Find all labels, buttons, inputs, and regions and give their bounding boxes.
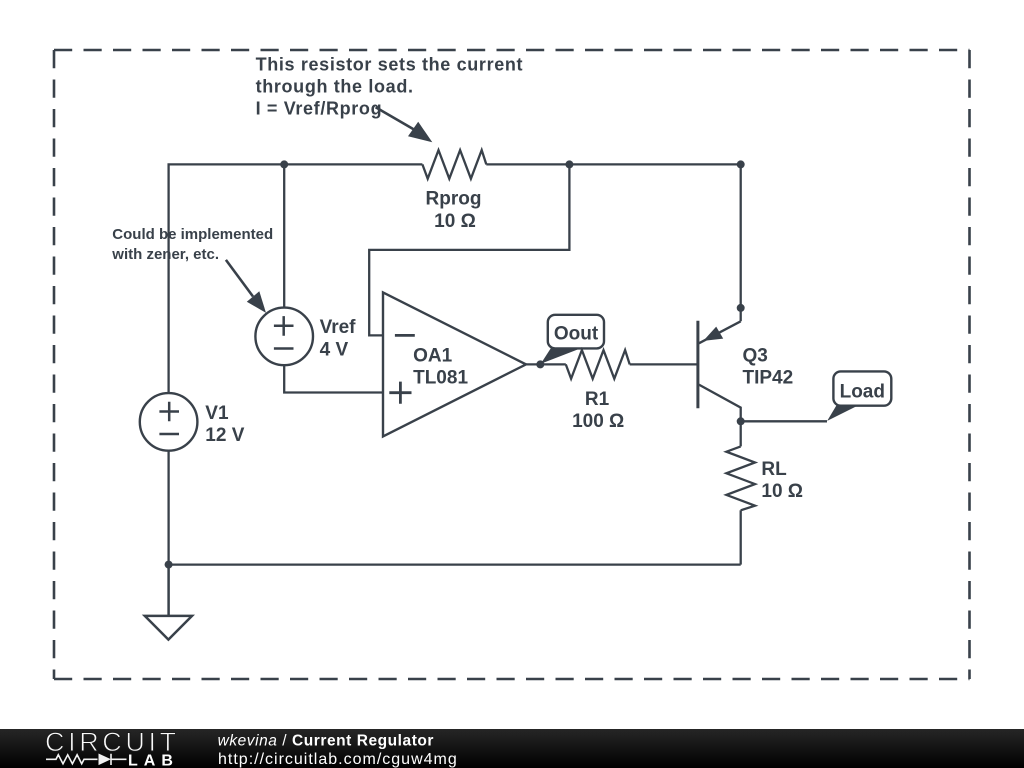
- svg-text:10 Ω: 10 Ω: [434, 211, 476, 232]
- op-amp inverting input pin marker: [395, 334, 415, 337]
- wire: Vref bottom to op-amp non-inverting input: [284, 365, 383, 392]
- svg-text:100 Ω: 100 Ω: [572, 411, 624, 432]
- wire: op-amp output to R1: [526, 363, 566, 365]
- svg-text:This resistor sets the current: This resistor sets the current: [256, 54, 524, 74]
- ground: [145, 565, 192, 640]
- svg-text:R1: R1: [585, 389, 610, 410]
- svg-text:Rprog: Rprog: [426, 189, 482, 210]
- wire: top rail from Rprog to transistor column: [486, 163, 740, 165]
- wire: collector node down to RL: [740, 421, 742, 446]
- annotation arrow to Vref: [226, 260, 266, 313]
- svg-text:TL081: TL081: [413, 368, 468, 389]
- svg-text:Vref: Vref: [320, 317, 357, 338]
- node junction: bottom rail / ground: [165, 561, 173, 569]
- wire: collector node to Load flag: [741, 420, 827, 422]
- resistor RL: [726, 446, 755, 510]
- node junction: rail / Q3 emitter column: [737, 160, 745, 168]
- CircuitLab logo resistor-diode glyph: [46, 754, 127, 765]
- wire: R1 to Q3 base: [630, 363, 698, 365]
- wire: Q3 emitter column down from rail: [740, 164, 742, 321]
- svg-text:LAB: LAB: [128, 753, 179, 768]
- svg-text:with zener, etc.: with zener, etc.: [111, 246, 219, 263]
- wire: left branch, top rail corner down to V1 top: [169, 164, 423, 393]
- net flag Oout: [541, 315, 604, 364]
- svg-text:Q3: Q3: [743, 345, 768, 366]
- wire: Vref branch down from rail: [283, 164, 285, 307]
- wire: feedback from op-amp inverting input up to top rail: [369, 164, 569, 335]
- svg-text:through the load.: through the load.: [256, 76, 414, 96]
- svg-text:wkevina / Current Regulator: wkevina / Current Regulator: [218, 733, 434, 750]
- svg-text:TIP42: TIP42: [743, 368, 794, 389]
- voltage source V1: [140, 393, 198, 451]
- svg-text:Load: Load: [840, 382, 885, 403]
- annotation arrow to Rprog: [376, 107, 433, 142]
- svg-text:OA1: OA1: [413, 346, 453, 367]
- voltage source Vref: [255, 308, 313, 366]
- node junction: Q3 collector / RL / Load: [737, 417, 745, 425]
- svg-text:RL: RL: [761, 459, 787, 480]
- op-amp non-inverting input pin marker: [389, 382, 411, 404]
- node: Q3 emitter terminal dot: [737, 304, 745, 312]
- transistor Q3 (PNP): [698, 321, 741, 422]
- wire: V1 bottom to ground rail: [167, 451, 169, 565]
- annotation: top note text: [256, 54, 524, 118]
- svg-text:V1: V1: [205, 403, 229, 424]
- svg-text:4 V: 4 V: [320, 339, 349, 360]
- svg-text:12 V: 12 V: [205, 425, 244, 446]
- wire: bottom rail: [169, 563, 741, 565]
- annotation: left note text: [111, 226, 273, 263]
- resistor Rprog: [422, 150, 486, 179]
- wire: RL bottom to bottom rail: [740, 510, 742, 564]
- resistor R1: [566, 350, 630, 379]
- node Oout: op-amp output junction: [536, 360, 544, 368]
- svg-text:http://circuitlab.com/cguw4mg: http://circuitlab.com/cguw4mg: [218, 751, 458, 768]
- svg-text:Oout: Oout: [554, 323, 599, 344]
- node junction: rail / op-amp feedback: [565, 160, 573, 168]
- net flag Load: [827, 371, 891, 421]
- svg-text:10 Ω: 10 Ω: [761, 481, 803, 502]
- svg-text:Could be implemented: Could be implemented: [112, 226, 273, 243]
- node junction: rail / Vref branch: [280, 160, 288, 168]
- op-amp OA1: [383, 292, 526, 436]
- svg-text:I = Vref/Rprog: I = Vref/Rprog: [256, 98, 383, 118]
